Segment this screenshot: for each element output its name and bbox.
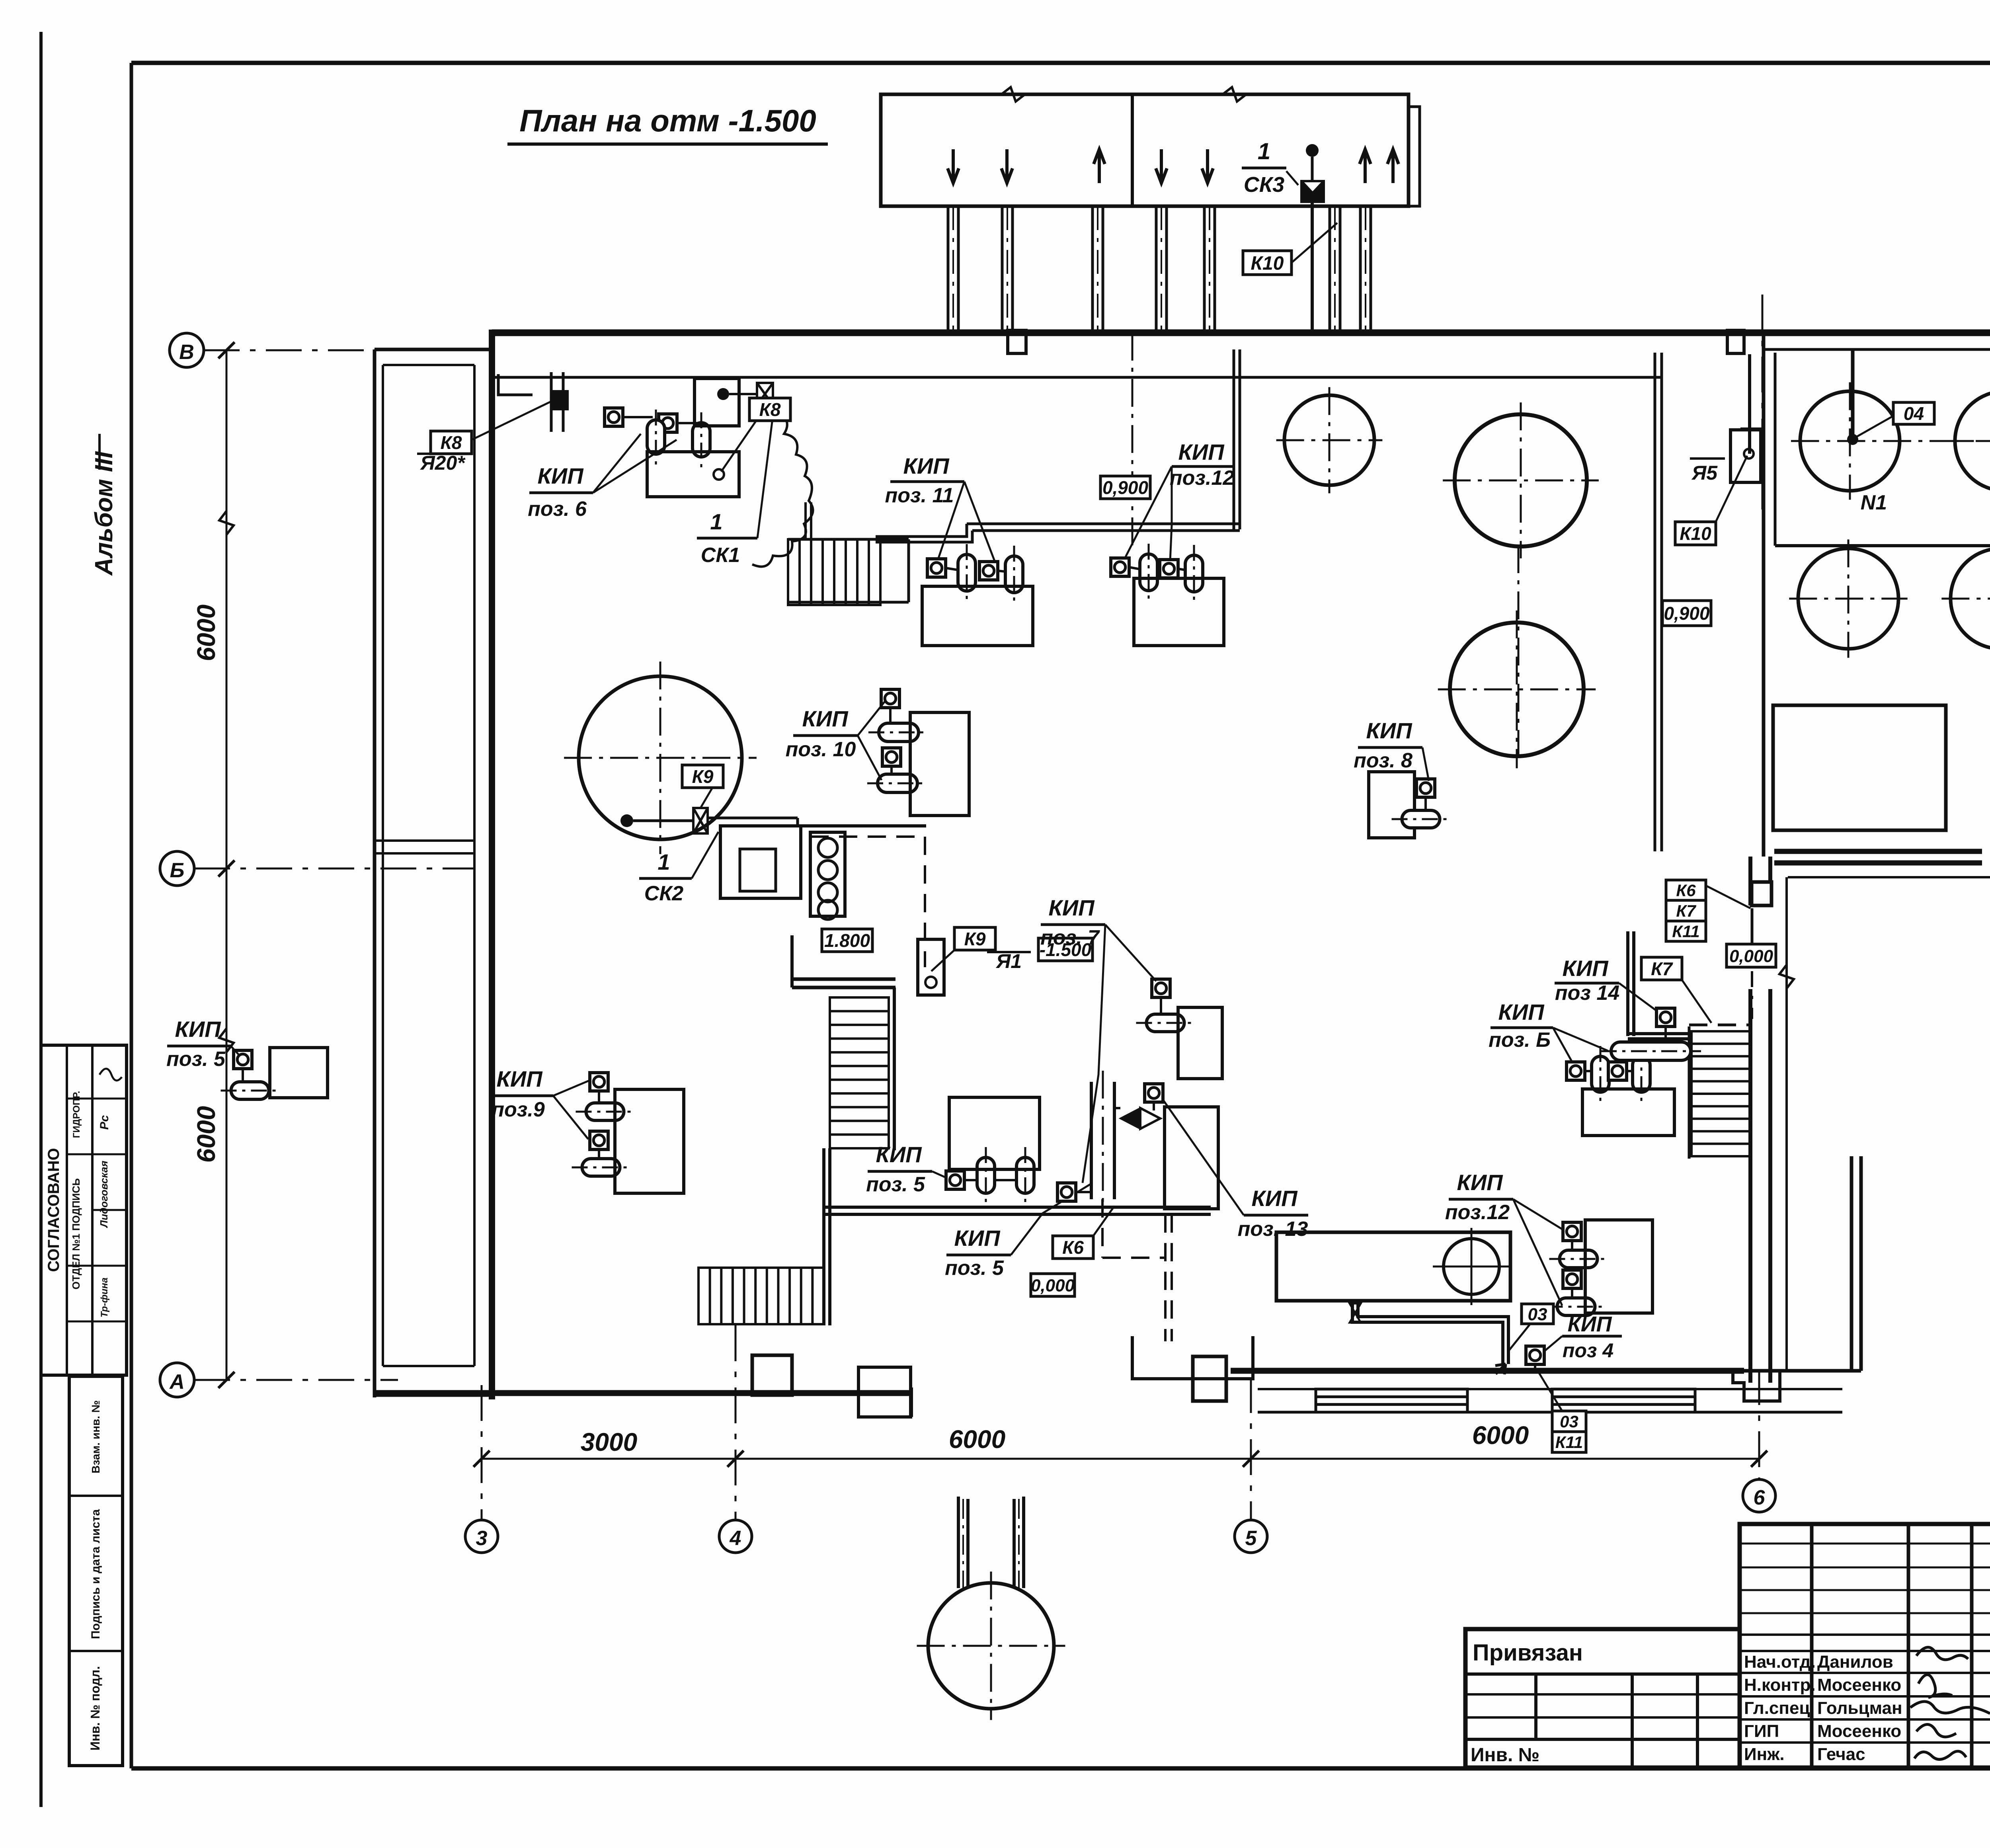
svg-text:Б: Б bbox=[170, 859, 185, 882]
outdoor sump circle bbox=[928, 1583, 1054, 1709]
KIP poz.5 cluster middle bbox=[946, 1171, 964, 1189]
drawing frame bbox=[131, 61, 1990, 65]
svg-text:1: 1 bbox=[1258, 139, 1270, 164]
apron stairs strip 2 bbox=[1552, 1389, 1695, 1412]
label 0.000 right bbox=[1727, 944, 1776, 967]
svg-text:К6: К6 bbox=[1062, 1237, 1084, 1258]
svg-text:КИП: КИП bbox=[497, 1066, 543, 1091]
wall pillar near 0.000 bbox=[1752, 882, 1771, 905]
title block: privyazan table bbox=[1465, 1629, 1740, 1768]
svg-text:Гечас: Гечас bbox=[1817, 1745, 1865, 1764]
pump room rect bbox=[1276, 1232, 1510, 1301]
svg-text:КИП: КИП bbox=[1568, 1312, 1612, 1336]
room with inner square (1.800 pit) bbox=[720, 826, 801, 898]
svg-text:КИП: КИП bbox=[876, 1142, 923, 1167]
svg-text:1: 1 bbox=[657, 849, 670, 874]
svg-text:4: 4 bbox=[730, 1527, 741, 1550]
dashed route near K6 column bbox=[1101, 1199, 1104, 1258]
K10 label box (top) bbox=[1243, 251, 1292, 275]
svg-text:0,000: 0,000 bbox=[1031, 1276, 1075, 1295]
centerline from manifold divider bbox=[1132, 333, 1134, 545]
svg-text:План на отм -1.500: План на отм -1.500 bbox=[519, 103, 816, 138]
svg-text:1.800: 1.800 bbox=[824, 930, 870, 951]
svg-text:поз. 5: поз. 5 bbox=[866, 1173, 925, 1196]
dashed route middle bbox=[810, 835, 925, 838]
svg-text:Гольцман: Гольцман bbox=[1817, 1698, 1902, 1718]
K8 junction (filled) bbox=[552, 391, 568, 409]
label 03/K11 stack bbox=[1552, 1411, 1586, 1432]
svg-text:К11: К11 bbox=[1672, 922, 1699, 941]
svg-text:N1: N1 bbox=[1861, 491, 1887, 514]
tank CK2 circle bbox=[579, 676, 742, 839]
svg-text:Инв. №: Инв. № bbox=[1471, 1745, 1539, 1766]
K6 duct valve (bowtie) bbox=[1120, 1108, 1140, 1129]
svg-text:Я5: Я5 bbox=[1691, 462, 1718, 484]
svg-text:СК2: СК2 bbox=[644, 882, 684, 905]
svg-text:Инв. № подл.: Инв. № подл. bbox=[88, 1666, 102, 1750]
svg-text:Взам. инв. №: Взам. инв. № bbox=[90, 1400, 102, 1473]
svg-text:поз. 13: поз. 13 bbox=[1238, 1218, 1308, 1241]
dashed route lower right corridor bbox=[1689, 1024, 1750, 1026]
lower-right room left wall bbox=[1626, 931, 1629, 1036]
label K10 box right bbox=[1675, 522, 1716, 545]
label K7 box bbox=[1641, 957, 1682, 980]
svg-text:Я1: Я1 bbox=[995, 950, 1022, 972]
svg-text:поз.12: поз.12 bbox=[1170, 466, 1234, 490]
svg-text:поз. 11: поз. 11 bbox=[885, 484, 954, 507]
right wing bottom thin line bbox=[1788, 876, 1990, 878]
axis A bubble bbox=[160, 1363, 194, 1397]
svg-text:0,000: 0,000 bbox=[1729, 946, 1773, 966]
KIP poz.5 cluster left bbox=[234, 1050, 252, 1069]
svg-text:поз. 10: поз. 10 bbox=[786, 738, 856, 761]
svg-text:КИП: КИП bbox=[903, 453, 950, 478]
panel with 4 circles bbox=[810, 832, 845, 916]
porch steps (bottom center) bbox=[1132, 1336, 1253, 1379]
svg-text:Инж.: Инж. bbox=[1744, 1745, 1785, 1764]
svg-text:Гл.спец: Гл.спец bbox=[1744, 1698, 1810, 1718]
pipe riser inside hall (from K10) bbox=[1233, 349, 1235, 529]
label K8 box 2 bbox=[749, 398, 790, 421]
svg-text:К11: К11 bbox=[1555, 1433, 1583, 1452]
svg-text:0,900: 0,900 bbox=[1664, 603, 1710, 624]
dashed pair to bottom porch bbox=[1164, 1214, 1167, 1341]
horizontal pipe to instrument clusters bbox=[967, 523, 1240, 525]
svg-text:поз 14: поз 14 bbox=[1555, 982, 1619, 1005]
svg-text:Рс: Рс bbox=[98, 1115, 111, 1130]
left vertical dimension line bbox=[226, 350, 228, 1380]
KIP poz.12 top cluster bbox=[1111, 558, 1129, 576]
svg-text:А: А bbox=[169, 1370, 185, 1393]
staircase top-left bbox=[788, 539, 880, 605]
svg-text:КИП: КИП bbox=[1498, 999, 1545, 1024]
pillar on top wall 2 bbox=[1727, 330, 1744, 353]
bottom-right porch bbox=[1733, 1371, 1780, 1401]
wavy revision cloud bbox=[752, 410, 813, 567]
svg-text:К6: К6 bbox=[1676, 881, 1696, 900]
label 0.900 right bbox=[1662, 601, 1711, 626]
svg-text:поз. 6: поз. 6 bbox=[528, 498, 587, 521]
manifold flow arrows bbox=[948, 149, 959, 183]
approval stamp block (left margin) bbox=[41, 1045, 127, 1375]
svg-text:5: 5 bbox=[1245, 1527, 1257, 1550]
valve on pump room pipe bbox=[1350, 1304, 1361, 1323]
svg-text:Привязан: Привязан bbox=[1473, 1640, 1583, 1666]
tank N2 circle bbox=[1955, 391, 1990, 491]
svg-text:К10: К10 bbox=[1251, 253, 1284, 274]
label 03 box bbox=[1522, 1304, 1553, 1324]
svg-text:ОТДЕЛ №1 ПОДПИСЬ: ОТДЕЛ №1 ПОДПИСЬ bbox=[70, 1178, 82, 1289]
svg-text:КИП: КИП bbox=[954, 1225, 1001, 1251]
staircase bottom-left outside bbox=[698, 1268, 824, 1324]
pipe drops below manifold bbox=[947, 206, 950, 330]
pipe into Я5 bbox=[1748, 354, 1751, 454]
svg-text:поз 4: поз 4 bbox=[1563, 1339, 1613, 1362]
svg-text:К9: К9 bbox=[692, 766, 714, 787]
KIP poz.12 bottom cluster bbox=[1563, 1222, 1581, 1241]
svg-text:6000: 6000 bbox=[192, 605, 220, 661]
svg-text:СОГЛАСОВАНО: СОГЛАСОВАНО bbox=[45, 1148, 62, 1272]
svg-text:СК1: СК1 bbox=[701, 544, 740, 567]
pipe from pump room to КИП поз4 bbox=[1358, 1301, 1508, 1364]
axis 3 bubble bbox=[465, 1520, 498, 1553]
label K8 box 1 bbox=[431, 431, 472, 454]
axis Б line bbox=[194, 868, 474, 870]
left door porch block bbox=[858, 1367, 911, 1417]
svg-text:КИП: КИП bbox=[538, 463, 584, 488]
CK2 drain valve bbox=[620, 814, 633, 827]
wall between N-room and lower tanks room bbox=[1775, 544, 1990, 547]
K8 riser pipe bbox=[550, 372, 553, 432]
svg-text:поз. Б: поз. Б bbox=[1489, 1028, 1551, 1052]
gate CK3 symbol bbox=[1301, 181, 1324, 202]
axis 6 bubble bbox=[1743, 1479, 1775, 1512]
box Я1 bbox=[918, 939, 944, 995]
svg-text:СК3: СК3 bbox=[1244, 173, 1284, 197]
bottom dimension line bbox=[482, 1458, 1759, 1460]
KIP poz.9 cluster bbox=[590, 1073, 608, 1091]
svg-text:поз.12: поз.12 bbox=[1445, 1201, 1510, 1224]
tank N1 circle bbox=[1800, 391, 1900, 491]
big tank circle 2 bbox=[1450, 623, 1584, 756]
bottom entrance apron bbox=[1258, 1388, 1842, 1390]
wall above bottom-left stairs bbox=[824, 1206, 1211, 1209]
CK1 valve block bbox=[757, 383, 773, 405]
label K6K7K11 stack bbox=[1666, 880, 1706, 900]
corridor left wall (0.900 room) bbox=[1654, 353, 1656, 851]
pipe elbow step left bbox=[876, 524, 972, 542]
svg-text:ГИДРОПР.: ГИДРОПР. bbox=[71, 1091, 82, 1138]
bottom-right room right wall bbox=[1850, 1156, 1853, 1371]
svg-text:КИП: КИП bbox=[1049, 895, 1095, 920]
label 0.000 (center) bbox=[1031, 1274, 1075, 1296]
svg-text:поз. 5: поз. 5 bbox=[945, 1257, 1004, 1280]
label 0.900 (top) bbox=[1100, 476, 1150, 499]
KIP poz.14 instrument bbox=[1656, 1008, 1675, 1026]
staircase central bbox=[830, 997, 889, 1148]
axis 5 bubble bbox=[1235, 1520, 1267, 1553]
instrument near K6 duct bbox=[1145, 1084, 1163, 1102]
KIP poz.8 cluster bbox=[1369, 772, 1414, 838]
svg-text:03: 03 bbox=[1528, 1305, 1547, 1324]
porch square (bottom left) bbox=[752, 1355, 792, 1395]
svg-text:Данилов: Данилов bbox=[1817, 1652, 1893, 1672]
svg-text:Мосеенко: Мосеенко bbox=[1817, 1675, 1901, 1695]
svg-text:КИП: КИП bbox=[175, 1017, 222, 1042]
manifold divider bbox=[1131, 94, 1134, 206]
svg-text:Альбом III: Альбом III bbox=[90, 451, 118, 576]
svg-text:3: 3 bbox=[476, 1527, 488, 1550]
svg-text:К8: К8 bbox=[759, 399, 781, 420]
svg-text:К7: К7 bbox=[1676, 902, 1696, 920]
label -1.500 bbox=[1038, 938, 1093, 961]
central-right room wall (double) bbox=[1748, 857, 1752, 905]
big tank circle 1 bbox=[1455, 414, 1587, 546]
annex partition near axis Б bbox=[375, 839, 474, 842]
svg-text:ГИП: ГИП bbox=[1744, 1721, 1779, 1741]
svg-text:Подпись и дата листа: Подпись и дата листа bbox=[89, 1509, 102, 1639]
KIP poz.10 cluster bbox=[881, 689, 899, 708]
KIP poz.Б cluster bbox=[1567, 1062, 1585, 1080]
axis Б bubble bbox=[160, 851, 194, 886]
svg-text:0,900: 0,900 bbox=[1102, 477, 1149, 498]
svg-text:КИП: КИП bbox=[1252, 1186, 1298, 1211]
svg-text:04: 04 bbox=[1904, 403, 1924, 424]
wall left of central stairs continuing down bbox=[822, 1148, 825, 1325]
right wing square basin bbox=[1773, 705, 1946, 830]
building top wall bbox=[492, 330, 1990, 336]
svg-text:поз. 5: поз. 5 bbox=[166, 1048, 226, 1071]
svg-text:поз.9: поз.9 bbox=[492, 1098, 545, 1121]
svg-text:Н.контр.: Н.контр. bbox=[1744, 1675, 1816, 1695]
svg-text:К8: К8 bbox=[441, 432, 462, 453]
svg-text:6000: 6000 bbox=[192, 1106, 220, 1163]
pump room circle bbox=[1444, 1239, 1499, 1294]
axis 4 bubble bbox=[719, 1520, 752, 1553]
svg-text:Нач.отд.: Нач.отд. bbox=[1744, 1652, 1816, 1672]
KIP poz.6 cluster bbox=[605, 408, 623, 426]
outer face line of lower-right wall bbox=[1785, 877, 1788, 1371]
bottom wall left section bbox=[375, 1390, 911, 1396]
signatures (squiggles) bbox=[1916, 1647, 1968, 1660]
equipment rect right of K6 bbox=[1165, 1107, 1218, 1209]
arrow at wall bbox=[1495, 1364, 1506, 1374]
KIP poz.11 cluster bbox=[927, 559, 946, 577]
box Я5 bbox=[1731, 430, 1761, 482]
apron stairs strip 1 bbox=[1316, 1389, 1467, 1412]
annex outer walls bbox=[373, 349, 377, 1397]
svg-text:КИП: КИП bbox=[1366, 718, 1413, 743]
svg-text:Я20*: Я20* bbox=[419, 452, 466, 474]
svg-text:КИП: КИП bbox=[1457, 1170, 1504, 1195]
svg-text:1: 1 bbox=[710, 509, 722, 534]
lower tank circle 1 bbox=[1798, 548, 1898, 649]
axis B bubble bbox=[170, 333, 204, 367]
stair-hall top wall (center) bbox=[792, 978, 895, 981]
tank stems N1 N2 bbox=[1851, 350, 1855, 438]
corner pipe elbow bbox=[498, 374, 533, 395]
label K9 box (in CK2) bbox=[682, 765, 723, 788]
svg-text:Лидоговская: Лидоговская bbox=[98, 1161, 110, 1228]
sump pipes bbox=[958, 1497, 968, 1588]
label K6 box bbox=[1053, 1236, 1093, 1259]
building left wall bbox=[489, 330, 495, 1399]
svg-text:К9: К9 bbox=[964, 929, 986, 949]
bottom wall right section bbox=[1231, 1368, 1744, 1374]
title block: signature table bbox=[1740, 1524, 1990, 1768]
sheet left edge line bbox=[39, 32, 43, 1807]
K10 riser line bbox=[1311, 202, 1314, 330]
svg-text:поз. 7: поз. 7 bbox=[1040, 926, 1100, 949]
svg-text:6000: 6000 bbox=[949, 1425, 1005, 1454]
label 04 box (tank) bbox=[1893, 402, 1934, 424]
annex inner walls bbox=[382, 365, 384, 1366]
small tank circle bbox=[1284, 395, 1374, 485]
svg-text:03: 03 bbox=[1560, 1412, 1578, 1431]
svg-text:Тр-фина: Тр-фина bbox=[99, 1278, 110, 1317]
svg-text:3000: 3000 bbox=[581, 1428, 637, 1456]
horizontal pipe capsule poz.Б bbox=[1611, 1042, 1691, 1060]
instrument поз4 bbox=[1526, 1346, 1544, 1364]
svg-text:КИП: КИП bbox=[1178, 439, 1225, 464]
inlet manifold box bbox=[881, 94, 1409, 206]
right wing bottom double wall bbox=[1774, 849, 1982, 854]
axis B line bbox=[204, 349, 375, 351]
staircase lower-right room bbox=[1691, 1031, 1750, 1156]
svg-text:К10: К10 bbox=[1680, 523, 1711, 544]
label 1.800 bbox=[822, 929, 872, 952]
lower tank circle 2 bbox=[1951, 548, 1990, 649]
room CK1 bbox=[695, 379, 739, 426]
margin stamp: Подпись и дата / Инв № подл bbox=[69, 1376, 123, 1766]
K6 vertical duct bbox=[1090, 1082, 1093, 1199]
N-room left wall (axis 6 wall) bbox=[1762, 333, 1766, 857]
pillar on top wall 1 bbox=[1008, 330, 1026, 353]
KIP poz.7 cluster bbox=[1152, 979, 1170, 997]
svg-text:Мосеенко: Мосеенко bbox=[1817, 1721, 1901, 1741]
right wing inner top line bbox=[1764, 348, 1990, 351]
svg-text:В: В bbox=[179, 341, 194, 364]
manifold right stub bbox=[1409, 107, 1420, 206]
label K9 box 2 bbox=[954, 927, 995, 950]
svg-text:КИП: КИП bbox=[1563, 956, 1609, 981]
svg-text:6: 6 bbox=[1754, 1486, 1766, 1509]
porch pillar (bottom center) bbox=[1193, 1356, 1226, 1401]
svg-text:6000: 6000 bbox=[1472, 1421, 1529, 1450]
svg-text:КИП: КИП bbox=[802, 706, 849, 731]
inner line of top channel bbox=[492, 376, 1662, 379]
svg-text:К7: К7 bbox=[1651, 958, 1673, 979]
svg-text:поз. 8: поз. 8 bbox=[1354, 749, 1413, 772]
axis A line bbox=[194, 1379, 398, 1381]
